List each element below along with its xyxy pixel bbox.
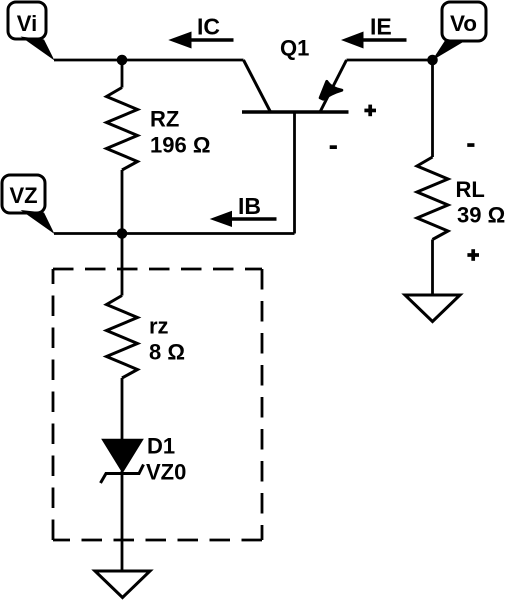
svg-text:IC: IC: [197, 14, 220, 40]
svg-text:D1: D1: [147, 434, 175, 459]
svg-text:39 Ω: 39 Ω: [457, 203, 505, 228]
svg-text:RZ: RZ: [150, 106, 179, 131]
svg-text:196 Ω: 196 Ω: [150, 133, 210, 158]
svg-text:VZ: VZ: [9, 183, 37, 208]
svg-text:IB: IB: [238, 193, 261, 219]
svg-text:8 Ω: 8 Ω: [149, 340, 185, 365]
svg-text:Vo: Vo: [450, 11, 477, 36]
svg-text:IE: IE: [370, 14, 392, 40]
svg-text:RL: RL: [456, 177, 485, 202]
svg-text:Vi: Vi: [17, 11, 37, 36]
svg-text:rz: rz: [149, 314, 169, 339]
svg-text:VZ0: VZ0: [146, 460, 186, 485]
svg-text:Q1: Q1: [280, 35, 309, 60]
